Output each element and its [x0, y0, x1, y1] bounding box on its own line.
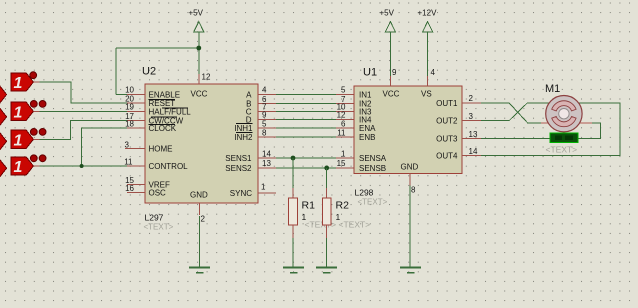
wire OUT1 to motor left (crossover): [481, 103, 541, 123]
ground symbol under U2: [189, 268, 210, 273]
P3 toggle dots: [30, 129, 46, 136]
svg-text:+12V: +12V: [418, 8, 438, 17]
svg-text:15: 15: [337, 159, 346, 168]
clipped probe tip at left edge row 3: [0, 132, 7, 150]
junction node SENS2 to R2: [324, 166, 329, 171]
svg-text:<TEXT>: <TEXT>: [144, 223, 174, 232]
svg-text:<TEXT>: <TEXT>: [358, 198, 388, 207]
svg-text:A: A: [246, 90, 252, 99]
wire +5V junction horizontal to left: [116, 47, 199, 49]
svg-text:3: 3: [125, 140, 130, 149]
U2 pin 10 ENABLE: [125, 86, 180, 100]
svg-text:18: 18: [125, 120, 134, 129]
wire probe P3 to CW/CCW: [33, 121, 127, 140]
svg-text:D: D: [246, 115, 252, 124]
svg-text:1: 1: [14, 159, 23, 176]
svg-text:ENB: ENB: [359, 133, 375, 142]
svg-text:1: 1: [14, 75, 23, 92]
U2 right pin A / wire to U1 IN1: [246, 86, 354, 100]
svg-text:6: 6: [341, 119, 346, 128]
svg-text:16: 16: [125, 184, 134, 193]
U2 pin 20 RESET: [125, 95, 175, 109]
svg-text:VCC: VCC: [383, 90, 400, 99]
svg-text:+5V: +5V: [189, 8, 204, 17]
probe P1 pin stub: [33, 81, 39, 83]
svg-text:<TEXT>: <TEXT>: [546, 145, 578, 155]
U2 pin 16 OSC: [125, 184, 166, 198]
U2 right pin INH1 / wire to U1 ENA: [234, 119, 354, 133]
ground symbol under U1: [400, 268, 421, 273]
ground symbol under R2: [316, 268, 337, 273]
U2 right pin SENS2 / wire to U1 SENSB: [225, 159, 354, 173]
svg-text:8: 8: [262, 128, 267, 137]
svg-text:12: 12: [337, 111, 346, 120]
U2 pin 19 HALF/FULL: [125, 103, 191, 117]
clipped probe tip at left edge row 4: [0, 159, 7, 177]
svg-text:10: 10: [125, 86, 134, 95]
svg-text:1: 1: [14, 133, 23, 150]
svg-text:14: 14: [262, 149, 271, 158]
motor M1 body: [546, 96, 582, 132]
svg-text:9: 9: [262, 111, 267, 120]
U2 right pin SENS1 / wire to U1 SENSA: [225, 149, 354, 163]
logic probe P1: [11, 73, 34, 92]
svg-text:OSC: OSC: [149, 189, 167, 198]
svg-text:13: 13: [469, 130, 478, 139]
svg-text:ENA: ENA: [359, 124, 376, 133]
svg-text:U2: U2: [142, 66, 156, 78]
svg-text:11: 11: [337, 128, 346, 137]
svg-text:4: 4: [262, 86, 267, 95]
svg-text:U1: U1: [363, 67, 377, 79]
svg-text:SENS1: SENS1: [225, 154, 252, 163]
ground symbol under R1: [283, 268, 304, 273]
svg-text:GND: GND: [401, 163, 419, 172]
svg-text:5: 5: [341, 86, 346, 95]
svg-text:8: 8: [411, 186, 416, 195]
resistor R2 body: [322, 198, 331, 225]
svg-text:1: 1: [341, 149, 346, 158]
svg-text:VCC: VCC: [191, 90, 208, 99]
svg-text:GND: GND: [190, 191, 208, 200]
U2 right pin C / wire to U1 IN3: [246, 103, 354, 117]
wire R2 to ground: [326, 225, 328, 238]
chip U2 body: [145, 84, 258, 203]
U2 pin 12 VCC top: [191, 73, 211, 99]
clipped probe tip at left edge row 1: [0, 85, 7, 103]
svg-text:SENSB: SENSB: [359, 164, 386, 173]
svg-text:R2: R2: [336, 200, 350, 212]
svg-text:9: 9: [392, 68, 397, 77]
junction node SENS1 to R1: [291, 156, 296, 161]
svg-text:5: 5: [262, 119, 267, 128]
motor label plate (green box): [550, 133, 578, 143]
svg-text:12: 12: [202, 73, 211, 82]
U1 pin 4 VS top: [421, 32, 436, 99]
U1 pin 14 OUT4: [436, 147, 481, 161]
P4 toggle dots: [30, 155, 46, 162]
P2 toggle dots: [30, 101, 46, 108]
svg-text:3: 3: [469, 112, 474, 121]
svg-text:R1: R1: [302, 200, 316, 212]
power +12V symbol: [423, 22, 433, 32]
wire branch up to CLOCK: [82, 128, 127, 166]
U2 right pin D / wire to U1 IN4: [246, 111, 354, 125]
U2 pin 1 SYNC: [230, 183, 276, 199]
svg-text:INH1: INH1: [234, 124, 253, 133]
svg-text:2: 2: [201, 215, 206, 224]
svg-text:L298: L298: [355, 188, 374, 198]
U2 pin 15 VREF: [125, 176, 170, 190]
wire +5V junction to U2 VCC pin 12 vertical: [198, 32, 200, 74]
svg-text:<TEXT>: <TEXT>: [339, 220, 371, 230]
svg-text:+5V: +5V: [380, 8, 395, 17]
svg-text:1: 1: [14, 105, 23, 122]
svg-text:2: 2: [469, 94, 474, 103]
wire probe P1 to RESET: [33, 82, 127, 103]
motor right pin stub: [580, 122, 592, 124]
svg-text:CONTROL: CONTROL: [149, 162, 189, 171]
svg-text:CLOCK: CLOCK: [149, 124, 177, 133]
wire into ENABLE pin: [116, 93, 127, 95]
junction node at +5V: [196, 46, 201, 51]
svg-text:13: 13: [262, 159, 271, 168]
svg-text:VS: VS: [421, 90, 432, 99]
resistor R1 body: [289, 198, 298, 225]
U1 pin 2 OUT1: [436, 94, 481, 108]
clipped probe tip at left edge row 2: [0, 108, 7, 126]
U2 right pin INH2 / wire to U1 ENB: [234, 128, 354, 142]
logic probe P3: [11, 130, 34, 149]
U2 pin 2 GND bottom: [190, 191, 208, 268]
wire SENS2 down to R2: [326, 168, 328, 188]
svg-text:SYNC: SYNC: [230, 189, 252, 198]
logic probe P2: [11, 102, 34, 121]
svg-text:SENSA: SENSA: [359, 154, 387, 163]
wire probe P4 to CONTROL: [33, 165, 127, 167]
U1 pin 9 VCC top: [383, 32, 400, 99]
svg-text:HOME: HOME: [149, 145, 173, 154]
wire R1 to ground: [292, 225, 294, 238]
U1 pin 3 OUT2: [436, 112, 481, 126]
wire OUT3 to motor right pin: [481, 123, 601, 139]
svg-text:ENABLE: ENABLE: [149, 90, 181, 99]
svg-text:19: 19: [125, 103, 134, 112]
U2 pin 11 CONTROL: [124, 157, 188, 171]
svg-text:HALF/FULL: HALF/FULL: [149, 107, 192, 116]
U2 right pin B / wire to U1 IN2: [246, 95, 354, 109]
svg-text:IN4: IN4: [359, 115, 372, 124]
P1 toggle dot: [30, 72, 37, 79]
wire OUT2 crossover up and around motor to OUT4: [481, 103, 620, 156]
wire probe P2 to HALF/FULL: [33, 110, 127, 112]
svg-text:OUT1: OUT1: [436, 99, 458, 108]
junction at CLOCK branch: [80, 164, 84, 168]
svg-text:OUT4: OUT4: [436, 152, 458, 161]
wire vertical down to ENABLE row: [115, 48, 117, 94]
power +5V symbol (U2): [194, 22, 204, 32]
svg-text:IN1: IN1: [359, 90, 372, 99]
svg-text:14: 14: [469, 147, 478, 156]
U2 pin 18 CLOCK: [125, 120, 177, 134]
svg-text:4: 4: [431, 68, 436, 77]
probe P2 pin stub: [33, 110, 39, 112]
chip U1 body: [354, 86, 462, 174]
U1 pin 13 OUT3: [436, 130, 481, 144]
logic probe P4: [11, 157, 34, 176]
U1 pin 8 GND bottom: [401, 163, 419, 268]
svg-text:OUT2: OUT2: [436, 117, 458, 126]
probe P3 pin stub: [33, 138, 39, 140]
probe P4 pin stub: [33, 165, 39, 167]
svg-text:INH2: INH2: [234, 133, 253, 142]
svg-text:11: 11: [124, 157, 133, 166]
svg-text:1: 1: [261, 183, 266, 192]
U2 pin 3 HOME: [125, 140, 173, 153]
power +5V symbol (U1): [385, 22, 395, 32]
svg-text:OUT3: OUT3: [436, 135, 458, 144]
svg-text:M1: M1: [545, 83, 560, 95]
wire SENS1 down to R1: [292, 158, 294, 188]
U2 pin 17 CW/CCW: [125, 112, 184, 126]
svg-text:L297: L297: [145, 213, 164, 223]
svg-text:SENS2: SENS2: [225, 164, 252, 173]
motor left pin stub: [541, 122, 549, 124]
